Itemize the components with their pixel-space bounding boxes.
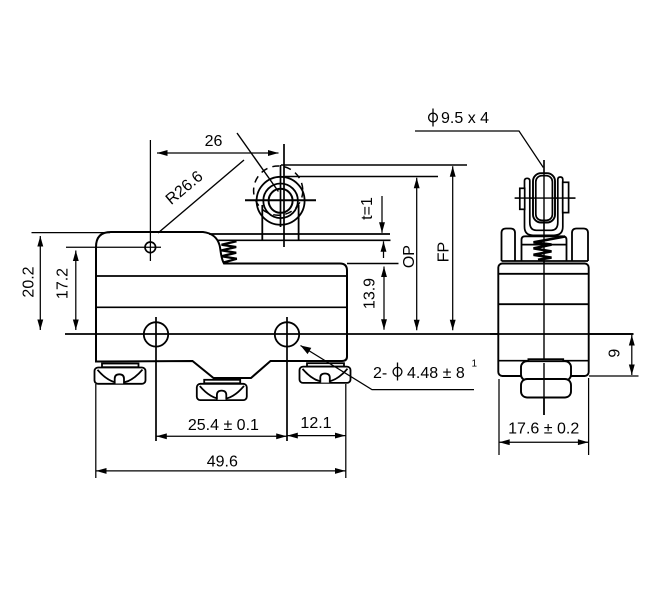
- body line lower: [96, 306, 347, 308]
- centerline through body: [490, 333, 634, 335]
- roller dashed circle free position: [254, 166, 303, 215]
- shoulder right: [572, 229, 588, 262]
- FP reference line: [281, 164, 467, 166]
- pivot hole: [145, 242, 156, 253]
- body line 3: [498, 360, 588, 362]
- housing outline left view: [96, 232, 347, 378]
- main centerline: [65, 333, 634, 335]
- body vertical centerline: [543, 263, 545, 415]
- body line upper: [96, 275, 347, 277]
- pivot crosshair vertical: [149, 140, 151, 261]
- pedestal: [522, 236, 567, 261]
- svg-text:1: 1: [472, 359, 478, 370]
- dimension 17.2: [75, 251, 77, 331]
- svg-text:R26.6: R26.6: [163, 168, 207, 209]
- dimension 26: [157, 152, 279, 154]
- radius line to roller center: [237, 133, 278, 192]
- dimension 13.9: [383, 267, 385, 330]
- right view centerline: [543, 160, 545, 415]
- svg-text:9: 9: [606, 349, 623, 358]
- svg-text:2-: 2-: [373, 365, 387, 382]
- dimension 12.1: [287, 384, 346, 478]
- pivot crosshair horizontal: [66, 246, 161, 248]
- nut lower: [521, 379, 571, 398]
- fork line left: [261, 205, 263, 240]
- dimension 17.6: [499, 378, 589, 455]
- pin tab right: [563, 182, 569, 212]
- leader 2-phi4.48: [301, 346, 475, 390]
- dimension OP: [416, 178, 418, 330]
- roller centerline vertical long: [283, 144, 285, 247]
- mounting hole left vertical: [155, 317, 157, 441]
- body line 1: [498, 273, 588, 275]
- svg-text:20.2: 20.2: [21, 266, 38, 297]
- svg-text:26: 26: [205, 133, 223, 150]
- roller side outer: [533, 173, 555, 222]
- mounting hole right vertical: [286, 317, 288, 441]
- pin tab left: [520, 188, 525, 209]
- roller centerline vertical short: [280, 165, 282, 227]
- svg-text:17.6 ± 0.2: 17.6 ± 0.2: [508, 421, 579, 438]
- svg-text:12.1: 12.1: [300, 415, 331, 432]
- right view roller pin centerline: [515, 197, 576, 199]
- pedestal line: [522, 244, 567, 246]
- lever bottom line: [218, 239, 391, 241]
- roller side inner: [536, 176, 553, 221]
- svg-text:25.4 ± 0.1: 25.4 ± 0.1: [188, 417, 259, 434]
- svg-text:13.9: 13.9: [362, 278, 379, 309]
- body line 2: [498, 303, 588, 305]
- label phi9.5 leader: [415, 131, 543, 168]
- phi glyph 4.48: [393, 363, 402, 381]
- svg-text:49.6: 49.6: [207, 454, 238, 471]
- fork clevis side view: [525, 177, 563, 235]
- body right view: [498, 264, 588, 377]
- fork line right: [298, 205, 300, 240]
- release reference line: [347, 263, 399, 265]
- spring right view: [534, 237, 566, 260]
- dimension 49.6: [96, 384, 346, 478]
- OP reference line: [285, 176, 438, 178]
- svg-text:FP: FP: [436, 242, 453, 262]
- R26.6 leader line: [158, 160, 244, 233]
- phi glyph 9.5: [429, 109, 438, 127]
- centerline overlay roller: [543, 160, 545, 236]
- housing top line right view: [502, 260, 589, 262]
- pin centerline overlay: [515, 197, 576, 199]
- nut centerline: [543, 363, 545, 415]
- spring centerline overlay: [543, 236, 545, 263]
- roller outer circle: [257, 177, 305, 225]
- mounting hole left: [144, 322, 168, 346]
- roller middle circle: [263, 184, 298, 219]
- dimension 9: [589, 335, 639, 376]
- shoulder left: [502, 229, 516, 262]
- svg-text:OP: OP: [401, 245, 418, 268]
- svg-text:t=1: t=1: [359, 197, 376, 220]
- svg-text:4.48 ± 8: 4.48 ± 8: [407, 365, 465, 382]
- dimension 20.2: [32, 233, 111, 330]
- washer: [528, 359, 563, 363]
- text 26: [21, 110, 624, 471]
- lever top line: [209, 233, 390, 235]
- roller centerline horizontal: [245, 199, 316, 201]
- dimension FP: [452, 166, 454, 330]
- dimension t=1: [382, 196, 384, 258]
- terminal screw right: [300, 363, 351, 383]
- terminal screw left: [95, 364, 146, 384]
- dimension 25.4: [156, 435, 286, 437]
- terminal screw middle: [197, 380, 247, 400]
- mounting hole right: [275, 322, 299, 346]
- spring left view: [222, 241, 237, 262]
- roller pin circle: [269, 189, 293, 213]
- svg-text:9.5 x 4: 9.5 x 4: [441, 110, 489, 127]
- svg-text:17.2: 17.2: [55, 268, 72, 299]
- nut upper: [521, 361, 571, 380]
